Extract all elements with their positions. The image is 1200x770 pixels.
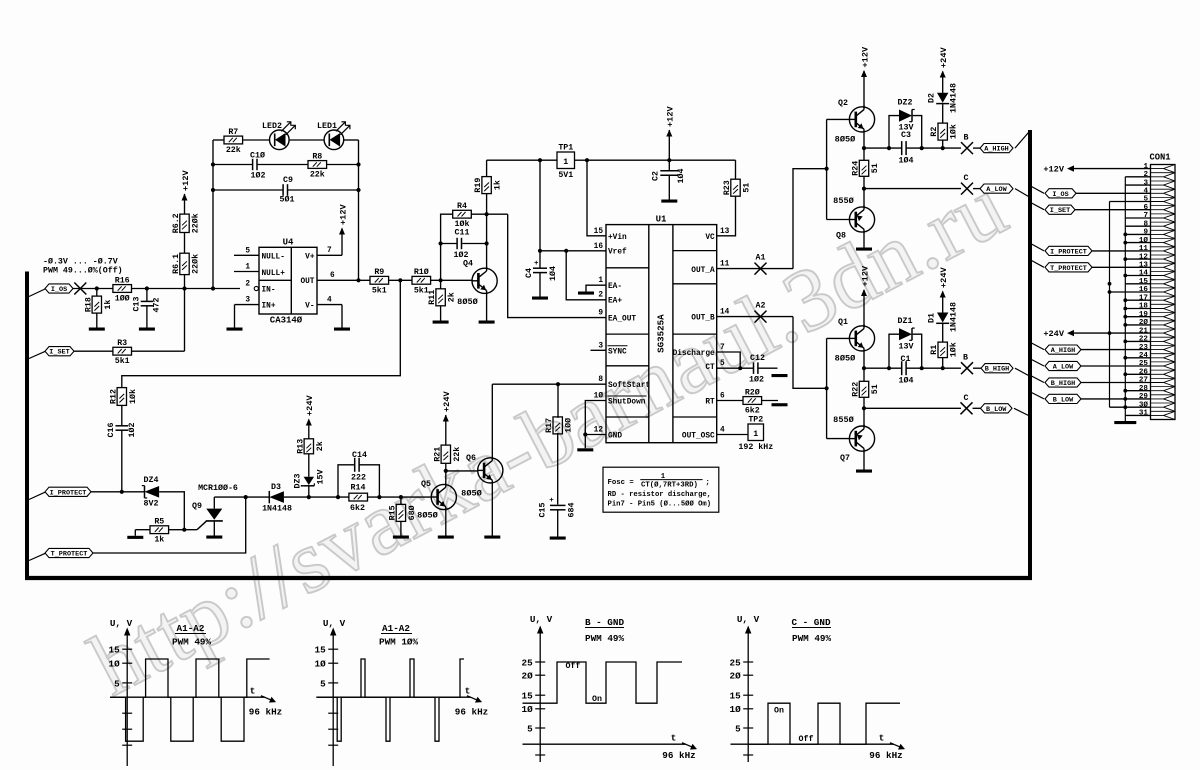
svg-text:R9: R9: [374, 268, 384, 277]
wire A_LOW line: [864, 188, 961, 190]
schematic frame right bus bar: [1028, 130, 1032, 580]
svg-text:5k1: 5k1: [115, 356, 130, 366]
op-amp U4 CA3140 body: [259, 247, 317, 314]
wire anode line to D3: [214, 496, 269, 498]
resistor R3: [113, 347, 132, 355]
svg-text:5: 5: [320, 678, 326, 689]
capacitor C14 bypass loop: [338, 465, 355, 497]
svg-text:Fosc =: Fosc =: [608, 479, 635, 487]
svg-text:8V2: 8V2: [144, 500, 159, 509]
svg-text:4: 4: [720, 427, 725, 435]
wire R9 to R10: [389, 279, 412, 281]
svg-text:+12V: +12V: [338, 204, 348, 225]
svg-text:1Ø2: 1Ø2: [454, 250, 469, 260]
wire R24 to A_LOW line: [863, 176, 865, 188]
wire R4/C11 left leg: [441, 214, 453, 280]
svg-text:1Ø2: 1Ø2: [749, 375, 764, 385]
svg-text:LED2: LED2: [262, 122, 282, 131]
transistor Q5 8050: [431, 484, 456, 509]
tag I_PROTECT right: [1045, 246, 1092, 255]
svg-text:NULL-: NULL-: [262, 253, 285, 261]
svg-text:DZ1: DZ1: [898, 317, 913, 326]
svg-text:R16: R16: [115, 276, 130, 285]
svg-text:SG3525A: SG3525A: [656, 314, 667, 353]
svg-text:+24V: +24V: [939, 47, 949, 68]
wire Q8 emitter to ground: [863, 233, 865, 247]
graph4 waveform: [748, 703, 900, 744]
tag B_LOW right: [1045, 394, 1081, 403]
wire CON1 ground bus: [1124, 177, 1126, 421]
wire Q8 collector to A_LOW: [863, 189, 865, 207]
svg-text:51: 51: [871, 384, 880, 394]
svg-text:11: 11: [1139, 245, 1149, 253]
wire R5 to gate node: [169, 529, 185, 531]
svg-text:3Ø: 3Ø: [1139, 400, 1149, 409]
svg-text:1N4148: 1N4148: [950, 83, 959, 113]
svg-text:1Ø4: 1Ø4: [676, 169, 686, 184]
svg-text:855Ø: 855Ø: [833, 196, 854, 206]
zener diode DZ2: [899, 110, 912, 122]
svg-text:1k: 1k: [154, 535, 164, 545]
ground R5: [127, 536, 143, 539]
wire R1 to D1: [942, 324, 944, 343]
svg-text:8: 8: [598, 376, 603, 384]
wire Vref riser: [539, 160, 541, 251]
wire C9 to right rail: [288, 189, 359, 191]
node A1: [717, 268, 793, 270]
svg-text:3: 3: [1143, 179, 1148, 187]
svg-text:-Ø.3V ... -Ø.7V: -Ø.3V ... -Ø.7V: [43, 257, 118, 267]
resistor R20: [717, 400, 743, 402]
svg-text:17: 17: [1139, 294, 1149, 302]
svg-text:2: 2: [245, 280, 250, 288]
power +24V from CON1 pin 21: [1074, 332, 1151, 334]
ground R20: [772, 403, 788, 406]
svg-text:4: 4: [1143, 188, 1148, 196]
svg-text:Pin7 - Pin5 (Ø...5ØØ Om): Pin7 - Pin5 (Ø...5ØØ Om): [608, 499, 712, 508]
ground R15: [400, 521, 402, 535]
wire +12V arrow to rail: [668, 130, 670, 160]
wire DZ3 column: [308, 486, 310, 497]
svg-text:R12: R12: [109, 389, 118, 404]
power +12V U4: [339, 228, 345, 235]
ground CON1 bus: [1114, 421, 1136, 424]
svg-text:2k: 2k: [315, 441, 325, 451]
wire B_LOW line: [864, 407, 961, 409]
U4 pin 3 IN+: [235, 304, 260, 306]
ground C12: [772, 374, 788, 377]
svg-text:B_LOW: B_LOW: [1053, 396, 1074, 404]
svg-text:C: C: [964, 394, 969, 403]
svg-text:PWM 1Ø%: PWM 1Ø%: [379, 637, 418, 648]
svg-text:5Ø1: 5Ø1: [280, 195, 295, 205]
wire R3 to R6.1 column: [132, 350, 185, 352]
svg-text:C14: C14: [352, 451, 367, 460]
svg-text:OUT_B: OUT_B: [691, 315, 715, 323]
wire Q6 base: [446, 470, 478, 472]
svg-text:5: 5: [720, 360, 725, 368]
ground C4: [539, 273, 541, 297]
svg-text:R18: R18: [84, 297, 93, 312]
svg-text:15: 15: [522, 691, 534, 702]
svg-text:A1-A2: A1-A2: [382, 623, 410, 634]
svg-text:IN-: IN-: [262, 286, 276, 294]
svg-text:R15: R15: [388, 505, 397, 520]
tag A_LOW left: [973, 188, 980, 190]
svg-text:R3: R3: [117, 339, 127, 348]
wire +12V to R6.2: [184, 194, 186, 214]
graph1 waveform PWM 49%: [110, 659, 270, 741]
transistor Q1 8050: [849, 326, 874, 351]
svg-text:B: B: [964, 134, 969, 143]
resistor R22: [863, 368, 865, 381]
wire R22 to B_LOW line: [863, 397, 865, 408]
wire LED row: [213, 139, 224, 141]
svg-text:V+: V+: [305, 254, 315, 262]
svg-text:SYNC: SYNC: [608, 348, 627, 356]
power +12V C2: [666, 130, 672, 137]
svg-text:R6.2: R6.2: [172, 213, 181, 233]
svg-text:D1: D1: [928, 313, 937, 323]
svg-text:6: 6: [330, 272, 335, 280]
power +24V R13: [306, 419, 312, 426]
resistor R2 column: [942, 140, 944, 148]
wire R6.1 down to R3 line: [184, 275, 186, 352]
svg-text:25: 25: [522, 657, 534, 668]
svg-text:EA+: EA+: [608, 298, 622, 306]
svg-text:U, V: U, V: [323, 618, 346, 629]
svg-text:1N4148: 1N4148: [262, 504, 292, 513]
svg-text:1Ø: 1Ø: [594, 392, 604, 401]
svg-text:96 kHz: 96 kHz: [869, 750, 902, 761]
svg-text:1Ø2: 1Ø2: [251, 171, 266, 181]
svg-text:On: On: [774, 707, 784, 716]
tag B_HIGH left: [973, 367, 981, 369]
svg-text:12: 12: [1139, 253, 1149, 261]
svg-text:8Ø5Ø: 8Ø5Ø: [417, 511, 438, 521]
svg-text:R23: R23: [723, 180, 732, 195]
svg-text:15: 15: [315, 645, 327, 656]
svg-text:PWM 49...Ø%(Off): PWM 49...Ø%(Off): [43, 266, 123, 276]
svg-text:B: B: [963, 354, 968, 363]
thyristor Q9 MCR100-6: [184, 529, 197, 531]
svg-text:25: 25: [730, 657, 742, 668]
svg-text:9: 9: [1143, 229, 1148, 237]
ground R11: [440, 306, 442, 321]
ground U4 V-: [341, 305, 343, 328]
svg-text:C11: C11: [455, 229, 470, 238]
resistor R17 column: [557, 384, 559, 418]
ground C2: [668, 175, 670, 199]
capacitor C10: [252, 159, 254, 170]
wire C16 to I_PROTECT line: [121, 430, 123, 492]
svg-text:A_LOW: A_LOW: [986, 186, 1007, 194]
test point TP2: [717, 434, 748, 436]
svg-text:1Ø4: 1Ø4: [548, 266, 558, 281]
wire Q2/Q8 base column: [827, 118, 850, 120]
svg-text:8Ø5Ø: 8Ø5Ø: [457, 297, 478, 307]
svg-text:TP1: TP1: [558, 143, 573, 152]
graph2 y ticks: [328, 648, 338, 650]
resistor R6.1: [180, 253, 189, 274]
svg-text:+12V: +12V: [860, 46, 870, 67]
power +12V from CON1 pin 1: [1074, 168, 1151, 170]
wire C10 row: [213, 164, 253, 166]
wire Q1 emitter to B_HIGH line: [863, 352, 865, 368]
svg-text:1Øk: 1Øk: [949, 342, 959, 357]
wire U1 Vref pin 16: [540, 250, 606, 252]
wire DZ4 to R5/Q9 gate node: [159, 492, 184, 530]
svg-text:R5: R5: [154, 518, 164, 527]
svg-text:222: 222: [351, 474, 366, 483]
svg-text:+: +: [534, 260, 539, 268]
svg-text:22k: 22k: [310, 170, 325, 180]
svg-text:OUT: OUT: [300, 278, 314, 286]
svg-text:C16: C16: [107, 423, 116, 438]
wire CON1 +24V bus: [1109, 202, 1111, 408]
svg-text:DZ4: DZ4: [144, 476, 159, 485]
wire +12V to Q2 collector: [863, 71, 865, 107]
svg-text:A2: A2: [756, 302, 766, 311]
svg-text:Discharge: Discharge: [673, 350, 715, 358]
wire R17 to C15: [557, 433, 559, 505]
svg-text:OUT_A: OUT_A: [691, 267, 715, 275]
svg-text:192 kHz: 192 kHz: [738, 442, 773, 452]
test point TP1: [557, 152, 575, 169]
wire ground to R5: [135, 529, 150, 531]
wire A_HIGH line: [864, 147, 902, 149]
svg-text:T_PROTECT: T_PROTECT: [51, 551, 88, 559]
svg-text:RD - resistor discharge,: RD - resistor discharge,: [608, 491, 712, 499]
svg-text:I_PROTECT: I_PROTECT: [50, 489, 87, 497]
svg-text:R2Ø: R2Ø: [745, 387, 760, 397]
resistor R5: [150, 526, 169, 534]
wire I_OS to R16: [73, 288, 113, 290]
connector CON1 body: [1151, 165, 1176, 420]
svg-text:t: t: [465, 686, 471, 697]
svg-text:5V1: 5V1: [558, 171, 573, 180]
svg-text:NULL+: NULL+: [262, 270, 286, 278]
graph1 voltage axis: [126, 632, 128, 767]
svg-text:U4: U4: [283, 238, 294, 248]
svg-text:13V: 13V: [899, 124, 914, 133]
tag A_HIGH right: [1045, 345, 1081, 354]
svg-text:IN+: IN+: [262, 303, 276, 311]
graph2 time axis: [316, 696, 471, 698]
svg-text:+: +: [549, 497, 554, 505]
svg-text:1Ø: 1Ø: [730, 704, 742, 715]
svg-text:Q9: Q9: [192, 502, 202, 511]
svg-text:U1: U1: [656, 215, 667, 225]
svg-text:24: 24: [1139, 352, 1149, 360]
svg-text:5: 5: [114, 678, 120, 689]
svg-text:6k2: 6k2: [350, 503, 365, 513]
svg-text:I_PROTECT: I_PROTECT: [1050, 248, 1087, 256]
resistor R8: [308, 161, 327, 169]
svg-text:22k: 22k: [452, 447, 462, 462]
node I_SET tag: [29, 351, 45, 358]
svg-text:I_SET: I_SET: [49, 349, 69, 357]
wire DZ3 to R13: [308, 454, 310, 477]
svg-text:5: 5: [735, 723, 741, 734]
capacitor C2: [668, 160, 670, 171]
wire R16 to U4 IN-: [132, 288, 241, 290]
graph4 voltage axis: [747, 630, 749, 763]
wire Q7 base: [827, 438, 850, 440]
svg-text:Q6: Q6: [466, 454, 476, 463]
wire R10 to Q4 base: [431, 279, 473, 281]
graph3 waveform: [523, 662, 683, 703]
wire top rail to TP1: [487, 159, 557, 161]
IC U1 SG3525A body: [606, 225, 717, 443]
wire Q5 collector: [445, 471, 447, 485]
svg-text:C9: C9: [283, 176, 293, 185]
svg-text:16: 16: [594, 243, 604, 251]
svg-text:B_HIGH: B_HIGH: [1051, 380, 1075, 388]
svg-text:C - GND: C - GND: [791, 617, 830, 628]
svg-text:+Vin: +Vin: [608, 234, 627, 242]
graph2 voltage axis: [332, 632, 334, 767]
svg-text:DZ2: DZ2: [898, 99, 913, 108]
svg-text:B - GND: B - GND: [585, 617, 624, 628]
svg-text:1Ø: 1Ø: [109, 659, 121, 670]
svg-text:C1Ø: C1Ø: [250, 151, 265, 161]
transistor Q7 8550: [849, 426, 874, 451]
svg-text:27: 27: [1139, 377, 1149, 385]
transistor Q4 8050: [472, 268, 497, 293]
svg-text:472: 472: [152, 298, 161, 313]
svg-text:31: 31: [1139, 410, 1149, 418]
node A2: [717, 316, 793, 318]
svg-text:Q4: Q4: [463, 260, 473, 269]
svg-text:11: 11: [720, 261, 730, 269]
test cross X at I_OS: [74, 283, 86, 295]
wire R4 right to node: [471, 213, 507, 215]
svg-text:22: 22: [1139, 336, 1149, 344]
wire I_PROTECT to DZ4: [91, 491, 145, 493]
svg-text:5: 5: [245, 247, 250, 255]
node I_OS tag: [29, 289, 45, 297]
wire A2 to base column: [793, 317, 827, 389]
ground C15: [557, 510, 559, 537]
wire B_HIGH line: [864, 367, 902, 369]
svg-text:Off: Off: [799, 734, 814, 744]
resistor R4: [453, 210, 472, 218]
svg-text:13V: 13V: [899, 343, 914, 352]
svg-text:1: 1: [245, 264, 250, 272]
resistor R23: [735, 160, 737, 179]
svg-text:Vref: Vref: [608, 249, 627, 257]
svg-text:68Ø: 68Ø: [407, 505, 417, 520]
svg-text:+12V: +12V: [1043, 165, 1064, 175]
svg-text:96 kHz: 96 kHz: [662, 750, 695, 761]
svg-text:15: 15: [1139, 278, 1149, 286]
svg-text:PWM 49%: PWM 49%: [172, 637, 211, 648]
wire LED2 to LED1: [289, 139, 324, 141]
wire Q1/Q7 base column: [827, 337, 850, 339]
diode D3: [269, 491, 284, 503]
wire D1 to +24V: [942, 292, 944, 313]
wire EA_OUT run: [508, 214, 606, 317]
wire +24V to R21: [445, 415, 447, 445]
svg-text:R4: R4: [457, 202, 467, 211]
resistor R21: [441, 445, 450, 463]
resistor R12: [117, 388, 126, 406]
svg-text:PWM 49%: PWM 49%: [585, 633, 624, 644]
transistor Q6 8050: [478, 458, 503, 483]
wire Q4 collector: [486, 214, 488, 268]
svg-text:Q1: Q1: [838, 318, 848, 327]
wire CON1 pin stubs: [1125, 176, 1150, 178]
zener DZ1 bypass loop: [889, 334, 900, 368]
svg-text:15: 15: [730, 691, 742, 702]
svg-text:51: 51: [743, 183, 752, 193]
wire SYNC pin 3 stub: [591, 349, 607, 351]
graph1 y ticks: [122, 648, 132, 650]
resistor R16: [113, 285, 132, 293]
svg-text:PWM 49%: PWM 49%: [792, 633, 831, 644]
svg-text:22k: 22k: [226, 145, 241, 155]
svg-text:5k1: 5k1: [372, 285, 387, 295]
wire CT pin 5: [717, 367, 754, 369]
svg-text:14: 14: [720, 309, 730, 317]
wire R19 to R4 node: [486, 193, 488, 214]
svg-text:B_LOW: B_LOW: [986, 406, 1007, 414]
svg-text:1ØØ: 1ØØ: [115, 294, 130, 304]
svg-text:7: 7: [1143, 212, 1148, 220]
svg-text:D2: D2: [928, 93, 937, 103]
svg-text:CT(Ø,7RT+3RD): CT(Ø,7RT+3RD): [641, 481, 698, 490]
ground U1 GND: [584, 435, 586, 449]
wire to protect divider R12: [122, 280, 401, 387]
power +12V Q1: [861, 289, 867, 296]
power +24V D1: [940, 291, 946, 298]
resistor R1 column: [942, 358, 944, 369]
svg-text:22Øk: 22Øk: [191, 254, 201, 274]
svg-text:A1-A2: A1-A2: [177, 623, 205, 634]
svg-text:1ØØ: 1ØØ: [564, 418, 574, 433]
transistor Q2 8050: [849, 107, 874, 132]
wire C9 row: [213, 189, 283, 191]
wire feedback right rail: [358, 140, 360, 280]
capacitor C12: [753, 362, 755, 374]
wire A_HIGH into bus: [1015, 133, 1029, 149]
power +12V Q2: [861, 70, 867, 77]
svg-text:8: 8: [1143, 220, 1148, 228]
svg-text:A_HIGH: A_HIGH: [984, 146, 1008, 154]
svg-text:EA-: EA-: [608, 283, 622, 291]
capacitor C1: [901, 361, 903, 375]
svg-text:8Ø5Ø: 8Ø5Ø: [461, 489, 482, 499]
svg-text:LED1: LED1: [317, 122, 337, 131]
svg-text:+12V: +12V: [666, 106, 676, 127]
wire R13 to +24V: [308, 420, 310, 439]
wire R2 to D2: [942, 104, 944, 123]
svg-text:+24V: +24V: [442, 391, 452, 412]
svg-text:GND: GND: [608, 433, 622, 441]
wire B_LOW into bus: [1014, 408, 1029, 415]
svg-text:CON1: CON1: [1149, 153, 1170, 163]
svg-text:1N4148: 1N4148: [950, 302, 959, 332]
resistor R13: [304, 439, 313, 454]
svg-text:R7: R7: [228, 128, 238, 137]
resistor R24: [863, 148, 865, 160]
wire LED1 to right rail: [344, 139, 359, 141]
svg-text:1Øk: 1Øk: [128, 389, 138, 404]
resistor R15: [400, 497, 402, 504]
svg-text:+24V: +24V: [1043, 329, 1064, 339]
capacitor C15: [550, 504, 566, 506]
